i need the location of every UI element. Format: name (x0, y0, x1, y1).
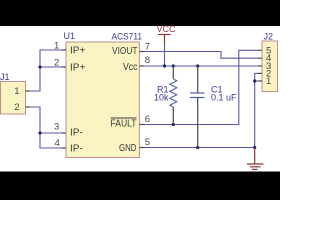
U1 pin 5 stub (140, 147, 145, 149)
wire U1 pin3 branch (40, 132, 62, 134)
wire J2 pins 1,2 to GND (255, 73, 259, 147)
junction dot node IP- (38, 131, 41, 134)
junction dot GND rail (253, 146, 256, 149)
resistor R1 (170, 66, 177, 125)
J2 pin 5 stub (258, 49, 262, 51)
svg-text:2: 2 (54, 57, 59, 68)
J2 pin 3 stub (258, 65, 262, 67)
U1 pin 6 stub (140, 124, 145, 126)
svg-text:IP-: IP- (70, 144, 83, 155)
connector body J2 (262, 41, 278, 92)
svg-text:10k: 10k (154, 93, 169, 103)
capacitor C1 (190, 66, 205, 148)
svg-text:6: 6 (145, 114, 150, 125)
svg-text:U1: U1 (64, 31, 76, 41)
U1 pin 8 stub (140, 65, 145, 67)
J2 pin 2 stub (258, 72, 262, 74)
svg-text:7: 7 (145, 42, 150, 53)
wire net GND (U1 pin5 rail) (145, 147, 255, 149)
svg-text:0.1 uF: 0.1 uF (211, 93, 237, 103)
U1 pin 7 stub (140, 51, 145, 53)
svg-text:IP+: IP+ (70, 46, 85, 57)
power symbol VCC (156, 24, 176, 43)
wire net IP- lower (J1-2 to U1 pins 3,4) (26, 107, 62, 148)
junction dot R1 top (172, 64, 175, 67)
wire VCC symbol drop (164, 43, 166, 66)
IC body U1 (66, 42, 139, 158)
svg-text:Vcc: Vcc (123, 62, 138, 73)
U1 pin 1 stub (62, 49, 67, 51)
J1 pin 2 stub (26, 106, 31, 108)
svg-text:3: 3 (54, 121, 59, 132)
wire net VIOUT (U1 pin7 to J2 pin4) (145, 52, 259, 59)
svg-text:8: 8 (145, 55, 150, 66)
svg-text:GND: GND (119, 143, 137, 154)
junction dot R1 bottom (172, 123, 175, 126)
ground symbol (247, 148, 264, 170)
svg-text:VCC: VCC (156, 24, 176, 34)
wire J2 pin1 stub to vertical (255, 80, 259, 82)
junction dot C1 bottom (196, 146, 199, 149)
svg-text:1: 1 (266, 76, 271, 87)
svg-text:5: 5 (145, 137, 150, 148)
svg-text:4: 4 (55, 138, 60, 149)
J1 pin 1 stub (26, 90, 31, 92)
junction dot C1 top (196, 64, 199, 67)
J2 pin 1 stub (258, 80, 262, 82)
svg-text:J2: J2 (264, 32, 274, 42)
svg-text:1: 1 (14, 86, 19, 97)
svg-text:FAULT: FAULT (111, 118, 137, 129)
junction dot J2 pin1 (253, 79, 256, 82)
U1 pin 2 stub (62, 66, 67, 68)
wire U1 pin2 branch (40, 66, 62, 68)
U1 pin 4 stub (62, 147, 67, 149)
J2 pin 4 stub (258, 57, 262, 59)
svg-text:IP-: IP- (70, 127, 83, 138)
wire net FAULT (U1 pin6 to J2 pin5) (145, 50, 259, 124)
wire net IP+ upper (J1-1 to U1 pins 1,2) (26, 50, 62, 91)
U1 pin 3 stub (62, 132, 67, 134)
svg-text:2: 2 (14, 102, 19, 113)
letterbox top bar (0, 0, 280, 26)
svg-text:1: 1 (54, 41, 59, 52)
letterbox bottom bar (0, 172, 280, 201)
svg-text:IP+: IP+ (70, 63, 85, 74)
wire net VCC rail (U1 pin8 to J2 pin3) (145, 65, 259, 67)
svg-text:J1: J1 (0, 72, 10, 82)
svg-text:VIOUT: VIOUT (112, 46, 138, 57)
connector body J1 (1, 82, 26, 115)
junction dot VCC drop (163, 64, 166, 67)
svg-text:ACS711: ACS711 (112, 31, 143, 41)
junction dot node IP+ (38, 65, 41, 68)
